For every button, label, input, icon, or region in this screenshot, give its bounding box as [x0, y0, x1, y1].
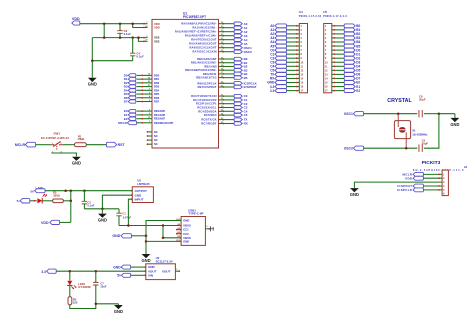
- port GND (LED return, far left): [17, 199, 30, 204]
- node C0 (wire from U1 + port): [219, 94, 248, 98]
- ground GND (PICKIT3): [350, 187, 359, 197]
- svg-text:3.3: 3.3: [41, 270, 46, 274]
- svg-text:RD6: RD6: [154, 96, 160, 100]
- U5 pin 11 net D4 (wire + port): [332, 64, 361, 68]
- node D4 (port + wire to U1 pin RD4): [124, 88, 152, 92]
- wire port to LED D1: [30, 200, 37, 202]
- ground GND (bottom rail): [114, 304, 123, 314]
- svg-text:RC3/SCK/SCL: RC3/SCK/SCL: [197, 106, 217, 110]
- capacitor C4 0.1uF: [130, 38, 144, 61]
- svg-text:0.1uF: 0.1uF: [136, 55, 144, 59]
- U4 pin 5 net A4 (port + wire): [270, 40, 299, 44]
- svg-text:RC5/SDO: RC5/SDO: [204, 113, 217, 117]
- wire LED to R3: [42, 200, 53, 202]
- node A2 (wire from U1 + port): [219, 30, 248, 34]
- node D7 (port + wire to U1 pin RD7): [124, 100, 152, 104]
- connector U4 P0000-1-17-2-54 body: [299, 10, 322, 93]
- port MCLR (reset net, left): [15, 142, 36, 147]
- svg-text:RX: RX: [244, 122, 248, 126]
- svg-text:RD0: RD0: [154, 73, 160, 77]
- svg-text:RB5/AN13/T1G: RB5/AN13/T1G: [196, 76, 216, 80]
- svg-text:GND: GND: [183, 240, 189, 244]
- ground GND (crystal): [450, 114, 459, 127]
- svg-text:LM78L05: LM78L05: [137, 182, 150, 186]
- wire SW1 pins 3/4 to GND: [51, 153, 76, 156]
- svg-text:OUTPUT: OUTPUT: [135, 189, 148, 193]
- node D0 (port + wire to U1 pin RD0): [124, 74, 152, 78]
- resistor R1 10kohm: [75, 134, 87, 146]
- svg-text:H1: H1: [464, 165, 468, 169]
- svg-text:RB0/AN12/INT: RB0/AN12/INT: [197, 57, 217, 61]
- H1 pin 4 net ICSPDAT (port + wire): [397, 184, 442, 188]
- svg-text:B5: B5: [244, 76, 248, 80]
- svg-text:GND: GND: [141, 258, 150, 263]
- U4 pin 4 net A3 (port + wire): [270, 36, 299, 40]
- node E0 (port + wire to U1 pin RE0): [124, 109, 152, 113]
- svg-text:RC1/T1OSI/CCP2: RC1/T1OSI/CCP2: [193, 98, 217, 102]
- svg-text:RB2/AN8: RB2/AN8: [204, 64, 217, 68]
- node C3 (wire from U1 + port): [219, 106, 248, 110]
- svg-text:VDD: VDD: [405, 176, 413, 180]
- U5 pin 8 net D1 (wire + port): [332, 52, 361, 56]
- U5 pin 5 net B4 (wire + port): [332, 40, 361, 44]
- svg-text:RB1/AN10/C12IN3-: RB1/AN10/C12IN3-: [191, 61, 217, 65]
- node B5 (wire from U1 + port): [219, 76, 248, 80]
- svg-text:RE0/AN5: RE0/AN5: [154, 109, 166, 113]
- svg-text:RA5/AN4/SS/C2OUT: RA5/AN4/SS/C2OUT: [189, 42, 217, 46]
- wire USB GND A12 to GND net: [146, 221, 181, 254]
- svg-text:RA0/AN0/ULPWU/C12IN0-: RA0/AN0/ULPWU/C12IN0-: [181, 22, 217, 26]
- power flag VDD (top-left): [72, 17, 80, 25]
- junction VDD rail: [103, 22, 134, 25]
- U1 NC pin stubs: [147, 131, 152, 145]
- svg-text:C1: C1: [122, 212, 126, 216]
- svg-text:0.1uF: 0.1uF: [87, 204, 94, 208]
- svg-text:GND: GND: [114, 309, 123, 314]
- svg-text:16.432MHz: 16.432MHz: [412, 133, 428, 137]
- U5 pin 13 net D6 (wire + port): [332, 73, 361, 77]
- svg-text:VDD: VDD: [72, 17, 80, 21]
- U4 pin 3 net A2 (port + wire): [270, 32, 299, 36]
- capacitor C3 0.1uF: [117, 24, 131, 38]
- svg-text:VSS: VSS: [154, 40, 160, 44]
- svg-text:OSC2: OSC2: [244, 50, 253, 54]
- svg-text:RC2/P1A/CCP1: RC2/P1A/CCP1: [196, 102, 217, 106]
- svg-text:KT-0603R: KT-0603R: [78, 285, 90, 289]
- port OSC2: [344, 146, 364, 151]
- U1 left pin names: [154, 22, 173, 146]
- svg-text:NC: NC: [154, 142, 158, 146]
- wire U3 GND pin down: [102, 195, 132, 209]
- wire USB GND B12: [146, 240, 181, 242]
- resistor R3 330ohm: [53, 190, 64, 202]
- svg-text:330Ω: 330Ω: [53, 193, 60, 197]
- node D3 (port + wire to U1 pin RD3): [124, 84, 152, 89]
- node D2 (port + wire to U1 pin RD2): [124, 80, 152, 85]
- power flag 5V (U3 output rail): [30, 189, 45, 194]
- svg-text:RB3/AN9/PGM/C12IN2-: RB3/AN9/PGM/C12IN2-: [185, 68, 217, 72]
- ground GND (top-left rail): [88, 77, 97, 86]
- svg-text:ICSPDAT: ICSPDAT: [244, 85, 257, 89]
- svg-text:RD4: RD4: [154, 88, 160, 92]
- svg-text:GND: GND: [72, 161, 81, 166]
- port RST: [106, 142, 125, 147]
- svg-text:RB4/AN11: RB4/AN11: [203, 72, 217, 76]
- svg-text:RC4/SDI/SDA: RC4/SDI/SDA: [198, 109, 216, 113]
- node OSC1 (wire from U1 + port): [219, 46, 253, 50]
- svg-text:TYPE-C-9P: TYPE-C-9P: [188, 212, 203, 216]
- capacitor C6 20pF: [419, 94, 439, 117]
- U1 right pin names: [175, 22, 217, 126]
- svg-text:RD3: RD3: [154, 85, 160, 89]
- node A3 (wire from U1 + port): [219, 34, 248, 38]
- U4 pin 1 net A0 (port + wire): [270, 24, 299, 28]
- svg-text:P0000-1-17-2-4-3: P0000-1-17-2-4-3: [323, 15, 347, 18]
- H1 pin numbers 1-6: [443, 173, 445, 195]
- wire MCLR to SW1: [36, 144, 51, 146]
- H1 pin 1 net MCLR (port + wire): [403, 172, 443, 176]
- svg-text:GND: GND: [450, 122, 459, 127]
- U4 pin 8 net C1 (port + wire): [270, 52, 299, 56]
- U5 pin 14 net D7 (wire + port): [332, 77, 361, 81]
- node OSC2 (wire from U1 + port): [219, 50, 253, 54]
- svg-text:VDD: VDD: [154, 22, 160, 26]
- U5 pin 15 net E0 (wire + port): [332, 81, 361, 85]
- node C2 (wire from U1 + port): [219, 102, 248, 106]
- USB CC1 CC2 stubs: [176, 229, 181, 235]
- port OSC1: [344, 112, 364, 117]
- U4 pin 14 net RX (port + wire): [270, 77, 299, 81]
- wire VSS to GND: [91, 38, 133, 78]
- svg-text:RC7/RX/DT: RC7/RX/DT: [201, 122, 217, 126]
- svg-text:3.3: 3.3: [270, 89, 275, 93]
- junction GND vertical: [145, 235, 148, 243]
- node A1 (wire from U1 + port): [219, 26, 248, 30]
- U5 pin numbers 1-17: [325, 25, 328, 93]
- svg-text:RA6/OSC2/CLKOUT: RA6/OSC2/CLKOUT: [189, 46, 216, 50]
- connector USB1 TYPE-C-9P body: [176, 209, 205, 246]
- svg-text:0.1uF: 0.1uF: [124, 32, 132, 36]
- U5 pin 1 net B0 (wire + port): [332, 24, 361, 28]
- svg-text:5v: 5v: [117, 274, 121, 278]
- wire H1 pin3 to GND: [354, 182, 442, 187]
- ground GND (below SW1): [72, 156, 81, 165]
- U4 pin 9 net C2 (port + wire): [270, 56, 299, 60]
- svg-text:VDD: VDD: [154, 26, 160, 30]
- svg-text:VSS: VSS: [154, 36, 160, 40]
- U5 pin 17 net E2 (wire + port): [332, 89, 361, 93]
- node MCLR (port + wire to U1 pin RE3): [118, 121, 152, 125]
- U5 pin 3 net B2 (wire + port): [332, 32, 361, 36]
- port GND (USB): [112, 234, 146, 239]
- svg-text:RE1/AN6: RE1/AN6: [154, 113, 166, 117]
- svg-text:NC: NC: [154, 130, 158, 134]
- svg-text:VDD: VDD: [41, 221, 49, 225]
- U4 pin 16 net 3.3 (port + wire): [270, 85, 299, 89]
- node B4 (wire from U1 + port): [219, 72, 248, 76]
- wire R1 to RST: [86, 144, 106, 146]
- svg-text:CRYSTAL: CRYSTAL: [387, 98, 412, 104]
- node A4 (wire from U1 + port): [219, 38, 248, 42]
- svg-text:RD7: RD7: [154, 100, 160, 104]
- op-amp U1 PIC16F887-I/PT body: [152, 12, 219, 148]
- svg-text:OSC1: OSC1: [344, 112, 353, 116]
- wire VBUS rail to USB: [119, 224, 181, 227]
- svg-text:RA3/AN3/VREF+/C1IN+: RA3/AN3/VREF+/C1IN+: [185, 34, 217, 38]
- svg-text:RA4/T0CKI/C1OUT: RA4/T0CKI/C1OUT: [191, 38, 217, 42]
- wire OSC2 to crystal/C5: [364, 147, 418, 150]
- node D6 (port + wire to U1 pin RD6): [124, 95, 152, 100]
- svg-text:0.47uF: 0.47uF: [123, 215, 132, 219]
- junction VSS rail: [103, 36, 140, 39]
- U5 pin 7 net D0 (wire + port): [332, 48, 361, 52]
- connector H1 KH-2.54PH180-1X6P-L11.5 body: [413, 165, 468, 196]
- port 5v (U2 VIN): [117, 273, 146, 277]
- svg-text:PIC16F887-I/PT: PIC16F887-I/PT: [183, 15, 206, 19]
- node C4 (wire from U1 + port): [219, 109, 248, 113]
- wire U3 INPUT to VBUS rail: [128, 199, 132, 225]
- wire 3.3 rail to U2 VOUT: [56, 270, 146, 273]
- svg-text:RD2: RD2: [154, 81, 160, 85]
- node D5 (port + wire to U1 pin RD5): [124, 92, 152, 96]
- resistor R2 220: [68, 297, 78, 305]
- svg-text:RD5: RD5: [154, 92, 160, 96]
- node B2 (wire from U1 + port): [219, 65, 248, 69]
- svg-text:P0000-1-17-2-54: P0000-1-17-2-54: [299, 15, 322, 18]
- wire 5V rail (U3 OUTPUT): [45, 189, 132, 192]
- U4 pin 10 net C3 (port + wire): [270, 60, 299, 64]
- node ICSPDAT (wire from U1 + port): [219, 84, 257, 89]
- node B0 (wire from U1 + port): [219, 57, 248, 61]
- U4 pin 15 net GND (port + wire): [267, 81, 299, 85]
- svg-text:MCLR: MCLR: [15, 143, 26, 147]
- node ICSPCLK (wire from U1 + port): [219, 81, 258, 86]
- svg-text:10uF: 10uF: [100, 285, 107, 289]
- svg-text:K2-1187SP-A4D6-04: K2-1187SP-A4D6-04: [41, 136, 69, 140]
- wire LED1 to R2: [69, 285, 71, 296]
- wire R2 to GND rail: [70, 304, 96, 309]
- U5 pin 9 net D2 (wire + port): [332, 56, 361, 60]
- node E2 (port + wire to U1 pin RE2): [124, 117, 152, 121]
- svg-text:U4: U4: [299, 10, 303, 14]
- capacitor C7 10uF: [93, 271, 107, 304]
- U5 pin 4 net B3 (wire + port): [332, 36, 361, 40]
- IC U3 LM78L05 body: [131, 179, 154, 203]
- svg-text:RB7/ICSPDAT: RB7/ICSPDAT: [198, 85, 217, 89]
- svg-text:9: 9: [206, 226, 208, 228]
- svg-text:RE3/MCLR/VPP: RE3/MCLR/VPP: [154, 121, 173, 125]
- U5 pin 16 net E1 (wire + port): [332, 85, 361, 89]
- svg-text:E2: E2: [356, 89, 360, 93]
- svg-text:20pF: 20pF: [419, 97, 426, 101]
- svg-text:D7: D7: [124, 100, 128, 104]
- node TX (wire from U1 + port): [219, 118, 248, 122]
- svg-text:RC6/TX/CK: RC6/TX/CK: [201, 118, 216, 122]
- svg-text:NC: NC: [154, 138, 158, 142]
- node RX (wire from U1 + port): [219, 122, 248, 126]
- svg-text:5V: 5V: [30, 189, 34, 193]
- U4 pin 11 net C4 (port + wire): [270, 64, 299, 68]
- capacitor C1 0.47uF: [116, 209, 131, 226]
- svg-text:RC0/T1OSO/T1CKI: RC0/T1OSO/T1CKI: [191, 94, 217, 98]
- wire USB VBUS B9 tie: [162, 226, 181, 240]
- node B1 (wire from U1 + port): [219, 60, 248, 65]
- node C1 (wire from U1 + port): [219, 98, 248, 102]
- svg-text:RST: RST: [118, 143, 126, 147]
- node B3 (wire from U1 + port): [219, 68, 248, 72]
- wire SW1 pin2 to R1: [63, 144, 75, 146]
- H1 pin 2 net VDD (port + wire): [405, 176, 442, 180]
- svg-text:RB6/ICSPCLK: RB6/ICSPCLK: [197, 81, 216, 85]
- svg-text:PICKIT3: PICKIT3: [422, 160, 441, 166]
- ground GND (U3): [98, 209, 107, 223]
- wire GND rail (C2/C1): [84, 208, 119, 211]
- node A5 (wire from U1 + port): [219, 41, 248, 46]
- wire C6 to GND corner: [438, 112, 455, 115]
- H1 pin 5 net ICSPCLK (port + wire): [397, 188, 442, 192]
- LED LED1 KT-0603R: [67, 271, 91, 289]
- U4 pin 2 net A1 (port + wire): [270, 28, 299, 32]
- svg-text:MCLR: MCLR: [118, 121, 127, 125]
- wire R3 to VDD branch: [63, 191, 72, 223]
- svg-text:RD1: RD1: [154, 77, 160, 81]
- svg-text:C5: C5: [244, 113, 248, 117]
- U5 pin 6 net B5 (wire + port): [332, 44, 361, 48]
- node D1 (port + wire to U1 pin RD1): [124, 77, 152, 81]
- ground GND (below USB): [141, 253, 150, 263]
- svg-text:NC: NC: [154, 134, 158, 138]
- svg-text:5v: 5v: [17, 199, 20, 203]
- svg-text:RA7/OSC1/CLKIN: RA7/OSC1/CLKIN: [193, 50, 217, 54]
- U5 pin 12 net D5 (wire + port): [332, 68, 361, 72]
- U5 pin 10 net D3 (wire + port): [332, 60, 361, 64]
- wire VSS rail to U1 VSS pins: [92, 24, 147, 43]
- svg-text:RE2/AN7: RE2/AN7: [154, 117, 166, 121]
- port 3.3: [41, 269, 56, 274]
- connector U5 P0000-1-17-2-4-3 body: [323, 10, 347, 93]
- capacitor C2 0.1uF: [82, 191, 95, 209]
- svg-text:ICSPCLK: ICSPCLK: [397, 188, 413, 192]
- switch SW1 K2-1187SP-A4D6-04: [41, 132, 69, 154]
- svg-text:OSC2: OSC2: [344, 147, 353, 151]
- U1 left power pin numbers: [145, 22, 148, 42]
- svg-text:GND: GND: [98, 218, 107, 223]
- svg-text:GND: GND: [112, 234, 120, 238]
- USB1 shield pin: [205, 226, 213, 231]
- svg-text:U5: U5: [323, 10, 327, 14]
- svg-text:RA2/AN2/VREF-/CVREF/C2IN+: RA2/AN2/VREF-/CVREF/C2IN+: [175, 30, 217, 34]
- capacitor C5 20pF: [419, 114, 439, 152]
- svg-text:GND: GND: [183, 219, 189, 223]
- U5 pin 2 net B1 (wire + port): [332, 28, 361, 32]
- svg-text:KH-2.54PH180-1X6P-L11.5: KH-2.54PH180-1X6P-L11.5: [413, 169, 464, 172]
- svg-text:VIN: VIN: [148, 273, 153, 277]
- IC U2 SC1117-3.3V body: [145, 256, 181, 280]
- LED D1 L-53K: [37, 194, 46, 203]
- svg-text:SC1117-3.3V: SC1117-3.3V: [156, 259, 173, 263]
- U4 pin 6 net A5 (port + wire): [270, 44, 299, 48]
- crystal X1 16.432MHz: [394, 114, 428, 149]
- node A0 (wire from U1 + port): [219, 22, 248, 26]
- U4 pin 17 net 3.3 (port + wire): [270, 89, 299, 93]
- svg-text:VOUT: VOUT: [162, 270, 171, 274]
- wire OSC1 to crystal/C6: [364, 112, 418, 115]
- U4 pin numbers 1-17: [301, 25, 304, 93]
- svg-text:GND: GND: [88, 82, 97, 87]
- U4 pin 7 net C0 (port + wire): [270, 48, 299, 52]
- node E1 (port + wire to U1 pin RE1): [124, 113, 152, 117]
- wire VDD rail to U1 VDD pins: [80, 23, 148, 29]
- U4 pin 13 net TX (port + wire): [270, 73, 299, 77]
- U4 pin 12 net C5 (port + wire): [270, 68, 299, 72]
- svg-text:GND: GND: [350, 192, 359, 197]
- port VDD (5V rail bottom): [41, 220, 71, 225]
- svg-text:RA1/AN1/C12IN1-: RA1/AN1/C12IN1-: [193, 26, 217, 30]
- svg-text:10kΩ: 10kΩ: [77, 137, 85, 141]
- port GND (U2): [113, 265, 146, 269]
- svg-text:INPUT: INPUT: [135, 197, 144, 201]
- wire C7 bottom to GND: [95, 303, 119, 306]
- svg-text:220: 220: [73, 300, 78, 304]
- node C5 (wire from U1 + port): [219, 112, 248, 117]
- svg-text:GND: GND: [113, 266, 121, 270]
